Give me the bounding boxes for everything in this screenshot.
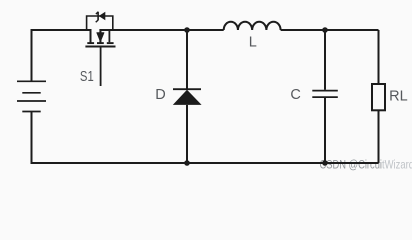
node: switch output junction top xyxy=(184,27,190,33)
switch S1: MOSFET gate line xyxy=(85,46,115,48)
node: capacitor bottom junction xyxy=(322,160,328,166)
wire: diode D bottom xyxy=(186,105,188,163)
wire: capacitor C top xyxy=(324,30,326,90)
node: output junction top (capacitor tap) xyxy=(322,27,328,33)
switch S1: MOSFET channel plates xyxy=(87,42,113,44)
wire: left rail bottom (battery - to bottom rail) xyxy=(32,112,379,164)
svg-text:L: L xyxy=(249,35,257,51)
wire: resistor RL bottom xyxy=(378,110,380,163)
diode D xyxy=(173,89,202,105)
resistor RL xyxy=(372,84,385,110)
wire: top rail right segment (MOSFET source to inductor) xyxy=(100,30,223,43)
wire: diode D top xyxy=(186,30,188,89)
switch S1: body diode (schottky) xyxy=(96,12,106,23)
switch S1: gate wire down xyxy=(100,47,102,86)
switch S1: MOSFET right stub (source) xyxy=(108,30,110,42)
wire: top rail left segment (battery + to MOSFET drain) xyxy=(32,30,91,81)
wire: top rail segment (inductor to output corner) xyxy=(281,29,379,31)
svg-text:D: D xyxy=(155,87,165,103)
svg-text:S1: S1 xyxy=(80,68,94,85)
wire: resistor RL top xyxy=(378,30,380,84)
svg-text:tWizard: tWizard xyxy=(382,157,412,171)
node: diode bottom junction xyxy=(184,160,190,166)
svg-text:CSDN @Circui: CSDN @Circui xyxy=(320,157,383,171)
inductor L xyxy=(224,22,281,30)
battery V1 xyxy=(17,81,46,111)
switch S1: body-diode loop wire xyxy=(87,16,113,30)
switch S1: MOSFET body arrow xyxy=(97,30,104,42)
svg-text:RL: RL xyxy=(389,89,408,105)
capacitor C xyxy=(312,91,338,98)
svg-text:C: C xyxy=(290,87,300,103)
wire: capacitor C bottom xyxy=(324,98,326,163)
